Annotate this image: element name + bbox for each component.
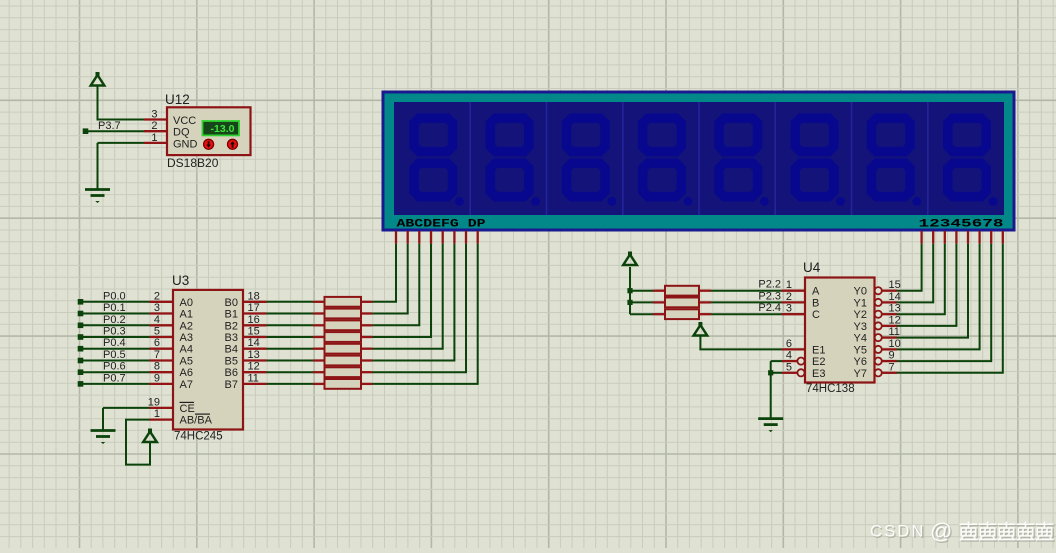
svg-text:10: 10 <box>889 338 901 350</box>
svg-text:P0.1: P0.1 <box>103 302 126 314</box>
svg-text:16: 16 <box>248 314 260 326</box>
svg-text:4: 4 <box>154 314 160 326</box>
svg-text:C: C <box>812 309 820 321</box>
svg-text:B6: B6 <box>225 367 238 379</box>
svg-text:B: B <box>812 297 819 309</box>
svg-text:P0.3: P0.3 <box>103 326 126 338</box>
svg-text:A: A <box>812 286 820 298</box>
svg-text:P0.4: P0.4 <box>103 337 126 349</box>
svg-text:15: 15 <box>248 326 260 338</box>
svg-text:6: 6 <box>154 337 160 349</box>
svg-text:GND: GND <box>173 138 198 150</box>
svg-text:CSDN: CSDN <box>870 523 926 541</box>
svg-text:11: 11 <box>889 326 900 338</box>
svg-text:-13.0: -13.0 <box>211 123 235 135</box>
svg-text:A5: A5 <box>180 356 193 368</box>
svg-text:B1: B1 <box>225 309 238 321</box>
svg-text:8: 8 <box>154 361 160 373</box>
svg-text:A0: A0 <box>180 297 193 309</box>
svg-text:A6: A6 <box>180 367 193 379</box>
svg-text:DQ: DQ <box>173 127 190 139</box>
svg-text:19: 19 <box>148 396 160 408</box>
svg-text:P2.3: P2.3 <box>758 290 781 302</box>
svg-text:14: 14 <box>248 337 260 349</box>
svg-text:7: 7 <box>154 349 160 361</box>
svg-text:B3: B3 <box>225 332 238 344</box>
svg-text:2: 2 <box>154 290 160 302</box>
svg-text:VCC: VCC <box>173 115 196 127</box>
svg-text:@: @ <box>930 519 952 544</box>
svg-text:12: 12 <box>248 361 260 373</box>
svg-text:B0: B0 <box>225 297 238 309</box>
svg-text:U12: U12 <box>165 92 190 107</box>
svg-text:12: 12 <box>889 314 901 326</box>
svg-text:P0.0: P0.0 <box>103 290 126 302</box>
svg-text:P0.5: P0.5 <box>103 349 126 361</box>
svg-text:P0.6: P0.6 <box>103 361 126 373</box>
svg-text:E2: E2 <box>812 356 825 368</box>
svg-text:4: 4 <box>786 350 792 362</box>
svg-text:6: 6 <box>786 338 792 350</box>
svg-text:Y1: Y1 <box>854 297 867 309</box>
svg-text:18: 18 <box>248 290 260 302</box>
svg-text:13: 13 <box>889 303 901 315</box>
svg-text:ABCDEFG DP: ABCDEFG DP <box>397 219 487 231</box>
svg-text:Y0: Y0 <box>854 286 867 298</box>
svg-text:Y2: Y2 <box>854 309 867 321</box>
svg-text:P0.2: P0.2 <box>103 314 126 326</box>
svg-text:AB/BA: AB/BA <box>180 415 213 427</box>
svg-text:A2: A2 <box>180 320 193 332</box>
svg-text:A7: A7 <box>180 379 193 391</box>
svg-text:E1: E1 <box>812 344 825 356</box>
svg-text:U4: U4 <box>803 260 821 275</box>
svg-text:B2: B2 <box>225 320 238 332</box>
svg-text:Y3: Y3 <box>854 321 867 333</box>
svg-text:7: 7 <box>889 361 895 373</box>
svg-text:Y5: Y5 <box>854 344 867 356</box>
svg-text:5: 5 <box>786 361 792 373</box>
svg-text:3: 3 <box>151 109 157 121</box>
svg-text:14: 14 <box>889 291 901 303</box>
svg-text:74HC138: 74HC138 <box>806 383 855 395</box>
svg-text:15: 15 <box>889 279 901 291</box>
svg-text:12345678: 12345678 <box>919 219 1005 231</box>
svg-text:Y7: Y7 <box>854 368 867 380</box>
svg-text:B5: B5 <box>225 356 238 368</box>
svg-text:13: 13 <box>248 349 260 361</box>
svg-text:B7: B7 <box>225 379 238 391</box>
svg-text:2: 2 <box>151 120 157 132</box>
svg-text:CE: CE <box>180 403 195 415</box>
svg-text:E3: E3 <box>812 368 825 380</box>
svg-text:1: 1 <box>154 408 160 420</box>
svg-text:9: 9 <box>889 350 895 362</box>
svg-text:A4: A4 <box>180 344 193 356</box>
svg-text:U3: U3 <box>172 273 189 288</box>
svg-text:P2.2: P2.2 <box>758 279 781 291</box>
svg-text:3: 3 <box>786 303 792 315</box>
svg-text:3: 3 <box>154 302 160 314</box>
svg-text:A3: A3 <box>180 332 193 344</box>
svg-text:Y4: Y4 <box>854 333 867 345</box>
svg-text:2: 2 <box>786 291 792 303</box>
svg-text:74HC245: 74HC245 <box>174 431 223 443</box>
svg-text:17: 17 <box>248 302 260 314</box>
svg-text:P0.7: P0.7 <box>103 372 126 384</box>
svg-text:11: 11 <box>248 372 259 384</box>
svg-text:1: 1 <box>786 279 792 291</box>
svg-text:9: 9 <box>154 372 160 384</box>
svg-text:P3.7: P3.7 <box>98 120 121 132</box>
svg-text:P2.4: P2.4 <box>758 302 781 314</box>
svg-text:B4: B4 <box>225 344 238 356</box>
svg-text:5: 5 <box>154 326 160 338</box>
svg-text:1: 1 <box>151 132 157 144</box>
svg-text:A1: A1 <box>180 309 193 321</box>
svg-text:Y6: Y6 <box>854 356 867 368</box>
svg-text:DS18B20: DS18B20 <box>167 156 219 170</box>
